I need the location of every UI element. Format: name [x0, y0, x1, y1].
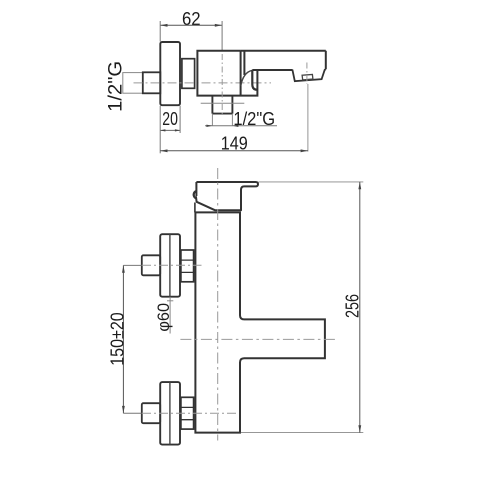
- spout inner waterway channel: [252, 70, 257, 90]
- dimension 20 arrows: [160, 129, 165, 131]
- extension line 256 bottom: [241, 432, 363, 434]
- body column with spout arm: [195, 212, 325, 432]
- extension line flange left lower: [159, 106, 161, 154]
- spout underside curve: [241, 70, 253, 86]
- svg-text:256: 256: [342, 294, 363, 318]
- collar left edge: [194, 203, 196, 213]
- handle pivot bump: [194, 191, 197, 198]
- spout second edge line: [243, 51, 245, 75]
- upper wall pipe: [142, 255, 160, 275]
- arrow 150 top: [122, 265, 125, 272]
- leader 150 bottom: [123, 412, 141, 414]
- aerator centerline: [306, 63, 308, 85]
- leader 150 top: [123, 264, 141, 266]
- lower connection centerline: [142, 412, 236, 414]
- extension line phi60: [169, 297, 171, 334]
- arrow outlet right: [232, 125, 238, 127]
- dimension 150±20 line: [122, 265, 124, 413]
- extension line aerator to 149: [307, 84, 309, 152]
- handle lever: [196, 182, 258, 210]
- handle left edge: [195, 182, 197, 196]
- horizontal centerline top view: [134, 82, 272, 84]
- aerator inner ring: [302, 75, 313, 80]
- lower flange inner line: [169, 382, 171, 445]
- dimension 256 line: [359, 182, 361, 433]
- upper nut facet lines: [180, 260, 194, 272]
- spout top edge to tip: [241, 50, 326, 52]
- dimension 20 line: [160, 129, 180, 131]
- lower nut: [181, 397, 194, 429]
- wall pipe body: [143, 72, 161, 93]
- wall flange (top view): [160, 42, 180, 105]
- svg-text:62: 62: [182, 9, 201, 29]
- arrow 150 bottom: [122, 406, 125, 413]
- arrow 256 bottom: [358, 425, 361, 432]
- dimension 1/2"G outlet line: [205, 125, 277, 127]
- svg-text:φ60: φ60: [155, 303, 173, 332]
- arrow outlet left: [206, 125, 212, 127]
- connector block: [182, 59, 195, 89]
- arrow 256 top: [358, 182, 361, 189]
- outlet pipe below body: [212, 96, 232, 114]
- lower wall flange: [160, 382, 180, 445]
- outlet pipe collar thin line: [201, 102, 245, 104]
- upper nut: [181, 250, 194, 282]
- column vertical centerline: [217, 168, 219, 441]
- upper connection centerline: [142, 264, 202, 266]
- svg-text:20: 20: [162, 109, 178, 129]
- svg-text:1/2"G: 1/2"G: [233, 108, 275, 129]
- extension line 256 top: [259, 181, 364, 183]
- svg-text:149: 149: [221, 132, 248, 153]
- extension line left of 62: [159, 21, 161, 42]
- tick on phi60 extension: [167, 300, 173, 302]
- svg-text:1/2"G: 1/2"G: [104, 61, 126, 112]
- dimension 62 line: [160, 24, 222, 26]
- upper wall flange: [160, 234, 180, 297]
- extension line right of 62: [221, 21, 223, 50]
- dimension 62 arrow right: [215, 24, 222, 27]
- wall pipe thread (thin): [123, 73, 143, 94]
- svg-text:150±20: 150±20: [107, 312, 128, 366]
- lower nut facet lines: [180, 407, 194, 419]
- lower wall pipe: [142, 403, 160, 423]
- body outline with spout: [197, 51, 325, 96]
- outlet pipe centerline: [221, 54, 223, 117]
- aerator housing: [292, 69, 325, 81]
- arm horizontal centerline: [180, 338, 338, 340]
- dimension 62 arrow left: [160, 24, 167, 27]
- dimension 149 arrows: [160, 149, 167, 152]
- upper flange inner line: [169, 234, 171, 297]
- outlet pipe thread (thin): [212, 114, 232, 126]
- extension line flange right lower: [179, 106, 181, 133]
- dimension 149 line: [160, 150, 308, 152]
